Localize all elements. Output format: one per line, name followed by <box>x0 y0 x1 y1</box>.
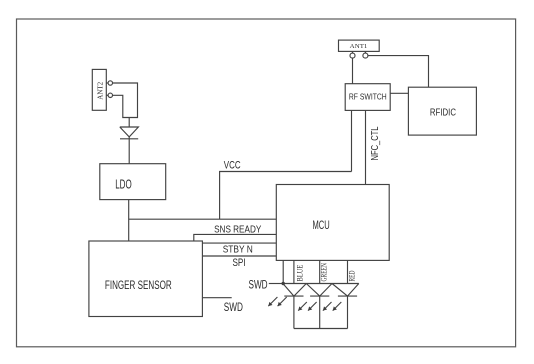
svg-text:ANT2: ANT2 <box>96 81 104 99</box>
svg-text:ANT1: ANT1 <box>350 43 368 50</box>
svg-text:FINGER SENSOR: FINGER SENSOR <box>105 278 172 292</box>
svg-text:SWD: SWD <box>249 278 268 292</box>
svg-text:MCU: MCU <box>313 218 330 232</box>
svg-text:SWD: SWD <box>224 300 243 314</box>
svg-text:SNS READY: SNS READY <box>214 225 261 236</box>
svg-text:RED: RED <box>348 270 357 281</box>
svg-text:STBY N: STBY N <box>223 245 253 256</box>
svg-text:NFC_CTL: NFC_CTL <box>370 126 381 160</box>
svg-text:VCC: VCC <box>224 159 241 171</box>
svg-text:RF SWITCH: RF SWITCH <box>349 93 387 102</box>
svg-text:LDO: LDO <box>115 177 132 192</box>
svg-text:SPI: SPI <box>233 257 246 269</box>
svg-text:RFIDIC: RFIDIC <box>430 108 456 119</box>
svg-text:BLUE: BLUE <box>295 265 304 282</box>
svg-text:GREEN: GREEN <box>320 263 329 282</box>
